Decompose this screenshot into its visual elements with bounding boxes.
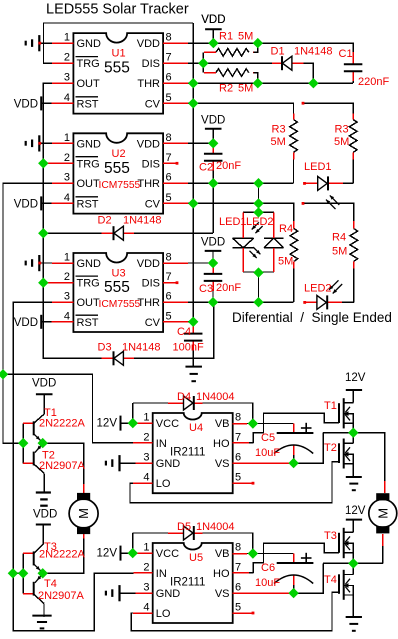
svg-text:5: 5 bbox=[235, 602, 241, 614]
svg-text:IR2111: IR2111 bbox=[170, 577, 205, 589]
svg-text:VB: VB bbox=[215, 418, 230, 430]
svg-text:OUT: OUT bbox=[77, 178, 101, 190]
svg-text:CV: CV bbox=[145, 98, 161, 110]
svg-text:M: M bbox=[76, 508, 91, 519]
svg-text:5M: 5M bbox=[332, 246, 347, 258]
svg-text:VS: VS bbox=[215, 588, 230, 600]
svg-text:VCC: VCC bbox=[156, 548, 179, 560]
svg-text:VCC: VCC bbox=[156, 418, 179, 430]
svg-text:5M: 5M bbox=[238, 83, 253, 95]
svg-text:4: 4 bbox=[64, 92, 70, 104]
svg-text:5M: 5M bbox=[278, 256, 293, 268]
svg-text:VDD: VDD bbox=[14, 198, 38, 210]
svg-text:HO: HO bbox=[213, 438, 230, 450]
svg-text:4: 4 bbox=[143, 602, 149, 614]
svg-text:M: M bbox=[375, 508, 390, 519]
svg-text:8: 8 bbox=[235, 412, 241, 424]
svg-text:OUT: OUT bbox=[77, 78, 101, 90]
svg-text:3: 3 bbox=[64, 291, 70, 303]
svg-text:1N4148: 1N4148 bbox=[123, 215, 162, 227]
svg-text:LED2: LED2 bbox=[304, 283, 332, 295]
svg-text:7: 7 bbox=[235, 431, 241, 443]
svg-text:HO: HO bbox=[213, 568, 230, 580]
svg-text:DIS: DIS bbox=[142, 58, 160, 70]
svg-text:C4: C4 bbox=[177, 326, 191, 338]
svg-text:8: 8 bbox=[166, 252, 172, 264]
svg-text:R3: R3 bbox=[272, 124, 286, 136]
svg-text:ICM7555: ICM7555 bbox=[99, 180, 141, 191]
svg-text:555: 555 bbox=[104, 279, 130, 296]
svg-text:5: 5 bbox=[166, 310, 172, 322]
svg-text:D4: D4 bbox=[177, 391, 191, 403]
svg-text:8: 8 bbox=[235, 542, 241, 554]
svg-text:12V: 12V bbox=[97, 418, 118, 430]
svg-text:555: 555 bbox=[104, 160, 130, 177]
svg-text:U1: U1 bbox=[112, 48, 126, 60]
svg-text:VB: VB bbox=[215, 548, 230, 560]
svg-text:2N2222A: 2N2222A bbox=[39, 549, 86, 561]
svg-text:1N4004: 1N4004 bbox=[196, 391, 235, 403]
svg-text:3: 3 bbox=[64, 72, 70, 84]
svg-text:12V: 12V bbox=[97, 548, 118, 560]
svg-text:5M: 5M bbox=[238, 31, 253, 43]
svg-text:1: 1 bbox=[143, 412, 149, 424]
svg-text:2: 2 bbox=[64, 271, 70, 283]
svg-text:2: 2 bbox=[64, 52, 70, 64]
svg-text:7: 7 bbox=[235, 561, 241, 573]
svg-text:C1: C1 bbox=[339, 48, 353, 60]
svg-text:DIS: DIS bbox=[142, 158, 160, 170]
svg-text:THR: THR bbox=[137, 78, 160, 90]
svg-text:TRG: TRG bbox=[77, 58, 100, 70]
svg-text:3: 3 bbox=[143, 452, 149, 464]
svg-text:Diferential / Single Ended: Diferential / Single Ended bbox=[232, 310, 392, 325]
svg-text:VS: VS bbox=[215, 458, 230, 470]
svg-text:220nF: 220nF bbox=[358, 76, 389, 88]
svg-text:CV: CV bbox=[145, 317, 161, 329]
svg-text:1: 1 bbox=[64, 252, 70, 264]
svg-text:100nF: 100nF bbox=[173, 342, 204, 354]
svg-text:1: 1 bbox=[64, 32, 70, 44]
svg-text:GND: GND bbox=[77, 258, 102, 270]
svg-text:VDD: VDD bbox=[201, 14, 225, 26]
svg-text:RST: RST bbox=[77, 317, 99, 329]
svg-text:VDD: VDD bbox=[137, 138, 160, 150]
svg-text:LO: LO bbox=[156, 478, 171, 490]
svg-text:6: 6 bbox=[235, 582, 241, 594]
svg-text:8: 8 bbox=[166, 132, 172, 144]
svg-text:D1: D1 bbox=[271, 46, 285, 58]
svg-text:RST: RST bbox=[77, 98, 99, 110]
svg-text:4: 4 bbox=[64, 310, 70, 322]
svg-text:5: 5 bbox=[166, 92, 172, 104]
svg-text:7: 7 bbox=[166, 152, 172, 164]
svg-text:T2: T2 bbox=[324, 442, 337, 454]
svg-text:GND: GND bbox=[156, 458, 181, 470]
svg-text:R2: R2 bbox=[219, 83, 233, 95]
svg-text:U4: U4 bbox=[189, 422, 203, 434]
svg-text:D2: D2 bbox=[98, 215, 112, 227]
svg-text:3: 3 bbox=[64, 172, 70, 184]
svg-text:DIS: DIS bbox=[142, 278, 160, 290]
svg-text:C2: C2 bbox=[199, 162, 213, 174]
svg-text:IR2111: IR2111 bbox=[170, 447, 205, 459]
svg-text:1N4148: 1N4148 bbox=[294, 46, 333, 58]
svg-text:VDD: VDD bbox=[33, 509, 57, 521]
svg-text:1: 1 bbox=[143, 542, 149, 554]
svg-text:7: 7 bbox=[166, 52, 172, 64]
svg-text:1N4004: 1N4004 bbox=[196, 521, 235, 533]
svg-text:GND: GND bbox=[77, 38, 102, 50]
svg-text:20nF: 20nF bbox=[216, 282, 241, 294]
svg-text:2: 2 bbox=[143, 561, 149, 573]
svg-text:VDD: VDD bbox=[137, 258, 160, 270]
svg-text:4: 4 bbox=[143, 472, 149, 484]
svg-text:C3: C3 bbox=[199, 283, 213, 295]
svg-text:LED1: LED1 bbox=[304, 161, 332, 173]
svg-text:6: 6 bbox=[166, 72, 172, 84]
svg-text:4: 4 bbox=[64, 192, 70, 204]
svg-text:GND: GND bbox=[156, 588, 181, 600]
svg-text:5: 5 bbox=[235, 472, 241, 484]
svg-text:VDD: VDD bbox=[201, 114, 225, 126]
svg-text:GND: GND bbox=[77, 138, 102, 150]
svg-text:LED555 Solar Tracker: LED555 Solar Tracker bbox=[46, 2, 189, 18]
svg-text:5: 5 bbox=[166, 192, 172, 204]
svg-text:T4: T4 bbox=[44, 578, 57, 590]
svg-text:LED2: LED2 bbox=[246, 216, 274, 228]
svg-text:TRG: TRG bbox=[77, 158, 100, 170]
svg-text:2N2222A: 2N2222A bbox=[39, 418, 86, 430]
svg-text:D5: D5 bbox=[177, 521, 191, 533]
svg-text:8: 8 bbox=[166, 32, 172, 44]
svg-text:5M: 5M bbox=[334, 136, 349, 148]
svg-text:6: 6 bbox=[235, 452, 241, 464]
svg-text:VDD: VDD bbox=[14, 98, 38, 110]
svg-text:7: 7 bbox=[166, 271, 172, 283]
svg-text:3: 3 bbox=[143, 582, 149, 594]
svg-text:VDD: VDD bbox=[32, 378, 56, 390]
svg-text:U3: U3 bbox=[112, 268, 126, 280]
svg-text:VDD: VDD bbox=[201, 237, 225, 249]
svg-text:T1: T1 bbox=[324, 400, 337, 412]
svg-text:C5: C5 bbox=[261, 432, 275, 444]
svg-text:R4: R4 bbox=[279, 223, 293, 235]
svg-text:5M: 5M bbox=[271, 136, 286, 148]
svg-text:U5: U5 bbox=[189, 552, 203, 564]
svg-text:THR: THR bbox=[137, 297, 160, 309]
svg-text:2: 2 bbox=[64, 152, 70, 164]
svg-text:T3: T3 bbox=[324, 530, 337, 542]
svg-text:12V: 12V bbox=[345, 372, 366, 384]
svg-text:12V: 12V bbox=[345, 505, 366, 517]
svg-text:LED1: LED1 bbox=[219, 216, 247, 228]
svg-text:VDD: VDD bbox=[137, 38, 160, 50]
svg-text:IN: IN bbox=[156, 568, 167, 580]
svg-text:TRG: TRG bbox=[77, 278, 100, 290]
svg-text:2N2907A: 2N2907A bbox=[38, 590, 85, 602]
svg-text:20nF: 20nF bbox=[216, 160, 241, 172]
svg-text:C6: C6 bbox=[261, 562, 275, 574]
svg-text:10uF: 10uF bbox=[255, 447, 280, 459]
svg-text:IN: IN bbox=[156, 438, 167, 450]
svg-text:VDD: VDD bbox=[14, 317, 38, 329]
svg-text:THR: THR bbox=[137, 178, 160, 190]
svg-text:RST: RST bbox=[77, 198, 99, 210]
svg-text:LO: LO bbox=[156, 608, 171, 620]
svg-text:1: 1 bbox=[64, 132, 70, 144]
svg-text:U2: U2 bbox=[112, 148, 126, 160]
svg-text:6: 6 bbox=[166, 172, 172, 184]
svg-text:ICM7555: ICM7555 bbox=[99, 299, 141, 310]
svg-text:D3: D3 bbox=[98, 342, 112, 354]
svg-text:10uF: 10uF bbox=[255, 577, 280, 589]
svg-text:OUT: OUT bbox=[77, 297, 101, 309]
svg-text:R3: R3 bbox=[335, 124, 349, 136]
svg-text:2: 2 bbox=[143, 431, 149, 443]
svg-text:R1: R1 bbox=[219, 31, 233, 43]
svg-text:6: 6 bbox=[166, 291, 172, 303]
svg-text:1N4148: 1N4148 bbox=[122, 342, 161, 354]
svg-text:2N2907A: 2N2907A bbox=[39, 460, 86, 472]
svg-text:CV: CV bbox=[145, 198, 161, 210]
svg-text:R4: R4 bbox=[332, 232, 346, 244]
svg-text:T4: T4 bbox=[324, 574, 337, 586]
svg-text:555: 555 bbox=[104, 60, 130, 77]
